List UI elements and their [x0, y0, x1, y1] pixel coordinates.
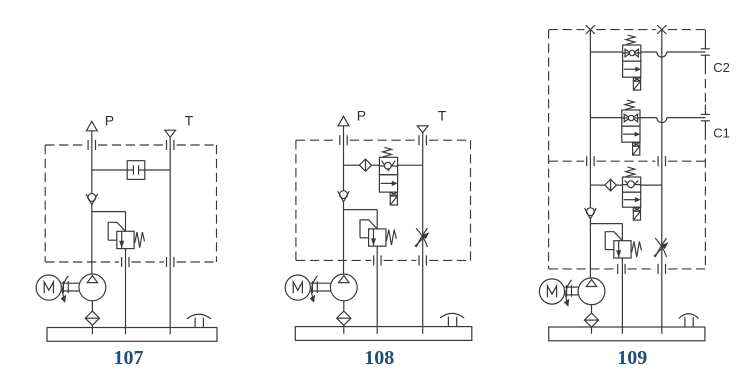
svg-text:T: T [438, 107, 447, 123]
svg-text:C1: C1 [713, 126, 730, 141]
svg-text:109: 109 [617, 347, 647, 369]
svg-text:T: T [185, 113, 194, 129]
svg-text:P: P [357, 107, 366, 123]
svg-text:107: 107 [114, 347, 144, 369]
svg-text:108: 108 [364, 347, 394, 369]
svg-text:P: P [105, 113, 114, 129]
svg-text:C2: C2 [713, 60, 730, 75]
